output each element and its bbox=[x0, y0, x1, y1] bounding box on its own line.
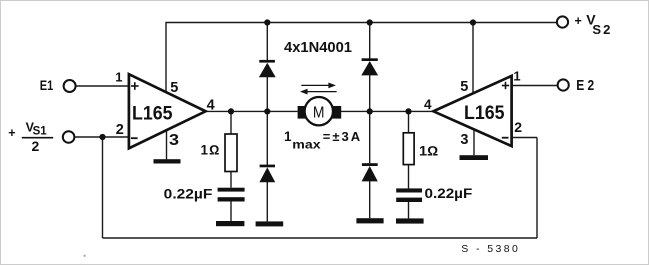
wire VS1/2 terminal to pin 2 of U1 bbox=[75, 136, 129, 138]
svg-text:1: 1 bbox=[284, 129, 292, 144]
wire right diode column lower bbox=[369, 181, 371, 218]
label Imax = +-3A bbox=[284, 129, 361, 152]
op-amp U1 (L165 left) bbox=[129, 74, 206, 148]
svg-text:max: max bbox=[292, 140, 321, 152]
wire left diode column middle bbox=[266, 77, 268, 165]
svg-text:S - 5380: S - 5380 bbox=[461, 243, 518, 255]
svg-text:E 2: E 2 bbox=[576, 77, 594, 94]
diode D1 upper left bbox=[259, 60, 276, 77]
wire feedback right vertical bbox=[536, 138, 538, 239]
diode D3 upper right bbox=[361, 58, 378, 75]
motor M bbox=[298, 97, 342, 125]
svg-text:1: 1 bbox=[513, 68, 520, 83]
svg-text:5: 5 bbox=[170, 80, 178, 96]
diode D2 lower left bbox=[259, 165, 275, 183]
svg-text:4x1N4001: 4x1N4001 bbox=[284, 39, 352, 56]
wire top rail with left elbow down to pin 5 of U1 bbox=[166, 23, 557, 93]
wire pin 5 of U2 to top rail bbox=[472, 23, 474, 94]
terminal +VS1/2 bbox=[63, 131, 75, 143]
arrow bidirectional top (right) bbox=[301, 83, 336, 89]
svg-text:S1: S1 bbox=[33, 126, 48, 138]
terminal E1 bbox=[64, 80, 76, 92]
ground D2 bbox=[256, 221, 284, 226]
svg-text:+: + bbox=[575, 14, 582, 28]
wire feedback bottom rail bbox=[103, 237, 538, 239]
node motor left junction bbox=[264, 108, 270, 114]
wire left diode column upper bbox=[266, 23, 268, 61]
wire U1 output to motor left brush bbox=[206, 110, 298, 112]
arrow bidirectional bottom (left) bbox=[300, 89, 337, 95]
ground U1 pin 3 bbox=[154, 159, 181, 163]
svg-text:L165: L165 bbox=[132, 103, 173, 124]
speck artifact bbox=[83, 255, 85, 257]
node top rail left junction bbox=[264, 19, 270, 25]
svg-text:3: 3 bbox=[460, 132, 468, 148]
node top rail middle junction bbox=[367, 19, 373, 25]
ground U2 pin 3 bbox=[460, 155, 489, 160]
svg-text:E1: E1 bbox=[40, 77, 54, 93]
wire E1 to pin 1 of U1 bbox=[76, 85, 129, 87]
wire right diode column upper bbox=[369, 23, 371, 59]
svg-text:4: 4 bbox=[207, 97, 215, 113]
wire pin 1 of U2 to E2 bbox=[512, 85, 558, 87]
label +VS1/2 fraction bbox=[8, 120, 53, 154]
op-amp U2 plus input mark bbox=[502, 82, 509, 89]
wire right diode column middle bbox=[369, 75, 371, 163]
wire pin 2 of U2 bbox=[512, 137, 537, 139]
svg-text:2: 2 bbox=[514, 119, 522, 135]
op-amp U2 minus input mark bbox=[502, 137, 509, 139]
svg-text:=±3A: =±3A bbox=[323, 129, 361, 144]
label +VS2 bbox=[575, 12, 611, 37]
ground C1 bbox=[216, 221, 244, 226]
resistor R2 1 ohm bbox=[403, 133, 414, 165]
wire C2 to ground bbox=[408, 202, 410, 218]
op-amp U2 (L165 right) bbox=[433, 76, 511, 146]
svg-text:+: + bbox=[8, 126, 15, 140]
diode D4 lower right bbox=[362, 163, 378, 181]
node output U1 junction bbox=[228, 108, 234, 114]
svg-text:2: 2 bbox=[32, 138, 40, 154]
node top rail right junction bbox=[470, 19, 476, 25]
wire pin 3 of U2 to ground bbox=[473, 129, 475, 155]
ground C2 bbox=[396, 218, 424, 223]
wire R1 to C1 bbox=[230, 172, 232, 188]
svg-text:3: 3 bbox=[169, 132, 179, 149]
svg-text:1: 1 bbox=[115, 70, 122, 85]
svg-text:2: 2 bbox=[116, 122, 124, 138]
node VS1/2 junction bbox=[99, 134, 105, 140]
wire pin 3 of U1 to ground bbox=[166, 130, 168, 159]
svg-text:5: 5 bbox=[460, 79, 468, 95]
node output U2 junction bbox=[405, 108, 411, 114]
svg-text:4: 4 bbox=[424, 97, 432, 112]
wire C1 to ground bbox=[230, 201, 232, 221]
svg-text:M: M bbox=[313, 104, 325, 121]
resistor R1 1 ohm bbox=[225, 134, 237, 172]
svg-text:0.22µF: 0.22µF bbox=[425, 186, 473, 201]
wire left diode column lower bbox=[266, 182, 268, 221]
node motor right junction bbox=[367, 108, 373, 114]
wire R2 branch from output node bbox=[408, 111, 410, 132]
capacitor C1 0.22uF bbox=[218, 188, 245, 202]
wire R2 to C2 bbox=[408, 165, 410, 189]
op-amp U1 plus input mark bbox=[131, 82, 139, 90]
svg-text:1Ω: 1Ω bbox=[419, 143, 438, 158]
wire R1 branch from output node bbox=[230, 111, 232, 134]
terminal +VS2 bbox=[557, 16, 568, 27]
wire motor right brush to U2 output bbox=[340, 110, 433, 112]
wire feedback left vertical bbox=[102, 137, 104, 238]
ground D4 bbox=[356, 218, 383, 223]
terminal E2 bbox=[558, 79, 569, 90]
svg-text:1 Ω: 1 Ω bbox=[201, 143, 220, 158]
capacitor C2 0.22uF bbox=[396, 188, 422, 202]
svg-text:0.22µF: 0.22µF bbox=[164, 185, 213, 201]
op-amp U1 minus input mark bbox=[131, 137, 138, 139]
svg-text:L165: L165 bbox=[464, 103, 505, 124]
